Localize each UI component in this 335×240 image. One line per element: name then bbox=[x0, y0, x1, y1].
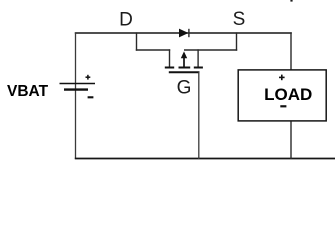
gate plate bbox=[169, 71, 200, 73]
battery plate positive bbox=[60, 83, 96, 85]
transistor Q1 MOSFET bbox=[136, 32, 237, 159]
wire load bottom branch bbox=[290, 121, 292, 160]
load plus sign bbox=[279, 76, 285, 78]
wire left rail (battery branch) bbox=[75, 32, 77, 159]
wire drain terminal bbox=[169, 49, 171, 67]
wire source terminal bbox=[197, 49, 199, 67]
cropped text remnant speck at top edge bbox=[290, 0, 292, 2]
svg-text:LOAD: LOAD bbox=[264, 85, 312, 104]
svg-text:S: S bbox=[233, 9, 246, 30]
battery plate negative bbox=[64, 88, 88, 90]
svg-text:VBAT: VBAT bbox=[7, 83, 49, 100]
channel segment right bbox=[194, 67, 203, 69]
channel segment left bbox=[165, 67, 174, 69]
battery plus sign bbox=[86, 76, 91, 78]
wire bottom rail bbox=[75, 158, 335, 160]
battery minus sign bbox=[88, 96, 94, 98]
svg-text:G: G bbox=[177, 77, 192, 98]
diode D1 body diode bbox=[179, 29, 189, 38]
wire source rise to rail bbox=[236, 32, 238, 50]
load box bbox=[238, 70, 326, 121]
load minus sign bbox=[280, 105, 286, 107]
channel segment middle bbox=[179, 67, 191, 69]
wire source horizontal bbox=[184, 49, 237, 51]
wire drain drop bbox=[136, 32, 138, 50]
wire top rail D to S bbox=[75, 32, 292, 34]
svg-text:D: D bbox=[119, 9, 133, 30]
wire load top branch bbox=[290, 32, 292, 70]
body arrow bbox=[183, 57, 185, 67]
wire drain horizontal bbox=[136, 49, 170, 51]
battery VBAT bbox=[60, 75, 96, 98]
wire gate bbox=[198, 71, 200, 159]
